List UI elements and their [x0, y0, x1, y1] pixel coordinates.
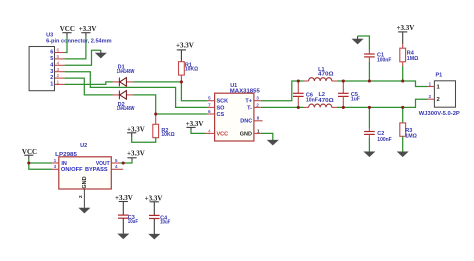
capacitor C5: [338, 81, 360, 107]
U3 pin 4: [50, 60, 64, 68]
U2 pin 1 IN: [52, 158, 67, 167]
svg-text:7: 7: [208, 102, 211, 108]
ground (C4): [149, 234, 160, 239]
svg-text:SCK: SCK: [217, 99, 229, 105]
svg-text:6-pin connector, 2.54mm: 6-pin connector, 2.54mm: [46, 38, 112, 44]
svg-text:+3.3V: +3.3V: [79, 25, 97, 33]
svg-text:+3.3V: +3.3V: [115, 194, 133, 202]
connector P1: [419, 73, 460, 118]
wire pin6 to VCC: [65, 37, 67, 53]
wire top path right of L1: [337, 81, 428, 87]
U2 pin 4 BYPASS: [85, 164, 123, 173]
svg-text:ON/OFF: ON/OFF: [61, 167, 83, 173]
svg-text:BYPASS: BYPASS: [85, 167, 108, 173]
U3 pin 2: [50, 73, 64, 81]
wire D2 to R2 node: [134, 95, 156, 114]
svg-text:WJ300V-5.0-2P: WJ300V-5.0-2P: [419, 111, 460, 117]
wire pin5 to +3.3V: [65, 37, 86, 59]
svg-text:VOUT: VOUT: [96, 161, 110, 167]
wire VCC to U2 IN and ON/OFF: [29, 159, 52, 164]
ground (C1): [352, 36, 363, 44]
node C1: [368, 79, 371, 82]
svg-text:10uF: 10uF: [128, 219, 139, 225]
svg-text:1: 1: [56, 80, 59, 86]
node C5 top: [342, 79, 345, 82]
svg-text:5: 5: [115, 158, 118, 164]
U2 pin 2 GND: [78, 176, 88, 208]
wire pin4 to ground: [65, 50, 101, 65]
diode D1: [113, 64, 135, 86]
node R4: [401, 79, 404, 82]
svg-text:2: 2: [428, 94, 431, 100]
power VCC (U2 input): [22, 148, 37, 159]
svg-text:+3.3V: +3.3V: [397, 24, 415, 32]
U3 pin 1: [50, 80, 64, 88]
U1 pin 3 T+: [245, 96, 260, 105]
svg-text:1: 1: [50, 82, 53, 88]
resistor R2: [153, 114, 175, 138]
U3 pin 3: [50, 67, 64, 75]
power +3.3V (C3): [115, 194, 133, 215]
capacitor C1: [364, 51, 392, 64]
diode D2: [113, 91, 135, 113]
svg-text:1MΩ: 1MΩ: [407, 56, 419, 62]
svg-text:IN: IN: [61, 161, 67, 167]
wire C1 to ground: [358, 36, 370, 51]
node C6 top: [297, 79, 300, 82]
wire T- bottom path: [261, 106, 304, 108]
node C6 bottom: [297, 106, 300, 109]
svg-text:6: 6: [56, 48, 59, 54]
svg-text:2: 2: [56, 73, 59, 79]
svg-text:L2: L2: [319, 92, 325, 98]
node D1/R1: [180, 80, 183, 83]
svg-text:VCC: VCC: [60, 25, 75, 33]
wire R2 bottom to +3.3V: [132, 137, 156, 142]
svg-text:10KΩ: 10KΩ: [185, 67, 199, 73]
power VCC top: [60, 25, 75, 36]
power +3.3V (U2 out): [127, 150, 145, 161]
wire C2 to ground: [368, 140, 370, 152]
svg-text:2: 2: [437, 97, 440, 103]
svg-text:4: 4: [56, 60, 59, 66]
svg-text:2: 2: [78, 195, 84, 198]
svg-text:10KΩ: 10KΩ: [161, 132, 175, 138]
P1 pin 1: [428, 81, 441, 90]
P1 pin 2: [428, 94, 440, 103]
capacitor C4: [149, 215, 171, 234]
svg-text:T+: T+: [245, 99, 252, 105]
svg-text:3: 3: [54, 164, 57, 170]
U3 pin 5: [50, 54, 64, 62]
svg-text:+3.3V: +3.3V: [145, 194, 163, 202]
wire pin2 to D2: [65, 78, 113, 95]
capacitor C3: [118, 215, 139, 234]
wire R4 to top path: [402, 66, 404, 81]
svg-text:SO: SO: [217, 105, 226, 111]
svg-text:1MΩ: 1MΩ: [405, 134, 417, 140]
svg-text:DNC: DNC: [240, 119, 252, 125]
node C2: [368, 106, 371, 109]
ground (R3): [397, 152, 408, 157]
svg-text:5: 5: [50, 56, 53, 62]
svg-text:1: 1: [428, 81, 431, 87]
svg-text:470Ω: 470Ω: [318, 98, 334, 104]
svg-text:6: 6: [208, 109, 211, 115]
svg-text:1: 1: [54, 158, 57, 164]
U2 pin 5 VOUT: [96, 158, 120, 167]
svg-text:U2: U2: [80, 143, 87, 149]
svg-text:LP2985: LP2985: [55, 152, 77, 158]
inductor L1 470R: [304, 67, 337, 81]
svg-text:1N4148W: 1N4148W: [117, 69, 135, 75]
resistor R1: [179, 62, 199, 82]
node VOUT: [122, 161, 125, 164]
power +3.3V (R1): [176, 41, 194, 61]
svg-text:4: 4: [208, 128, 211, 134]
wire +3.3V to U1 VCC: [191, 130, 206, 133]
U2 pin 3 ON/OFF: [52, 164, 83, 173]
svg-text:8: 8: [257, 116, 260, 122]
svg-text:+3.3V: +3.3V: [176, 41, 194, 49]
svg-text:CS: CS: [217, 112, 225, 118]
ground (C3): [118, 234, 129, 239]
wire U1 GND to ground: [261, 133, 273, 140]
capacitor C2: [364, 107, 392, 143]
svg-text:2: 2: [50, 75, 53, 81]
svg-text:P1: P1: [436, 73, 443, 79]
node C5 bottom: [342, 106, 345, 109]
wire U2 VOUT to +3.3V: [120, 160, 132, 163]
wire R2 node to U1 CS: [156, 113, 208, 115]
U1 pin 4 VCC: [206, 128, 228, 137]
svg-text:10uF: 10uF: [160, 220, 171, 226]
power +3.3V top: [79, 25, 97, 36]
svg-text:T-: T-: [247, 105, 252, 111]
wire T+ to top path: [261, 81, 304, 101]
svg-text:5: 5: [208, 96, 211, 102]
svg-text:1N4148W: 1N4148W: [117, 106, 135, 112]
svg-text:3: 3: [256, 96, 259, 102]
U1 pin 8 DNC: [240, 116, 262, 125]
svg-text:5: 5: [56, 54, 59, 60]
wire pin3 to U1 SO: [65, 72, 208, 108]
svg-text:3: 3: [50, 69, 53, 75]
connector U3: [29, 33, 112, 91]
svg-text:2: 2: [256, 102, 259, 108]
ground (U1): [267, 140, 278, 145]
capacitor C6: [293, 81, 318, 107]
resistor R3: [400, 107, 418, 139]
power +3.3V (R4): [397, 24, 415, 44]
ground (connector pin 4): [95, 50, 106, 58]
U1 pin 5 SCK: [208, 96, 229, 105]
wire C1 to top path: [368, 62, 370, 81]
ground (U2): [79, 208, 90, 213]
svg-text:470Ω: 470Ω: [318, 72, 334, 78]
svg-text:GND: GND: [82, 176, 88, 188]
svg-text:100nF: 100nF: [377, 57, 392, 63]
svg-text:3: 3: [56, 67, 59, 73]
node VCC/IN: [27, 161, 30, 164]
svg-text:1uF: 1uF: [351, 97, 361, 103]
wire R3 to ground: [402, 136, 404, 151]
wire bottom path right of L2: [337, 99, 428, 107]
svg-text:10nF: 10nF: [306, 98, 319, 104]
wire R1 node to U1 SCK: [181, 82, 207, 101]
U3 pin 6: [50, 48, 64, 56]
wire pin1 to D1: [65, 82, 113, 85]
node R3: [401, 106, 404, 109]
U1 pin 7 SO: [208, 102, 226, 111]
power +3.3V (C4): [145, 194, 163, 215]
U1 pin 1 GND: [240, 128, 261, 137]
svg-text:6: 6: [50, 50, 53, 56]
power +3.3V (U1 VCC): [186, 120, 204, 130]
U1 pin 2 T-: [247, 102, 261, 111]
power +3.3V (R2): [127, 126, 145, 137]
svg-text:1: 1: [257, 128, 260, 134]
regulator U2 LP2985: [55, 143, 111, 189]
svg-text:4: 4: [115, 164, 118, 170]
resistor R4: [400, 44, 419, 66]
svg-text:MAX31855: MAX31855: [230, 89, 260, 95]
op-amp U1 MAX31855: [215, 83, 260, 141]
svg-text:VCC: VCC: [217, 131, 229, 137]
inductor L2 470R: [304, 92, 337, 107]
svg-text:+3.3V: +3.3V: [127, 150, 145, 158]
wire D1 to R1 node: [134, 81, 182, 83]
ground (C2): [364, 152, 375, 157]
svg-text:GND: GND: [240, 131, 252, 137]
svg-text:100nF: 100nF: [377, 137, 392, 143]
U1 pin 6 CS: [208, 109, 225, 118]
node D2/R2: [154, 112, 157, 115]
